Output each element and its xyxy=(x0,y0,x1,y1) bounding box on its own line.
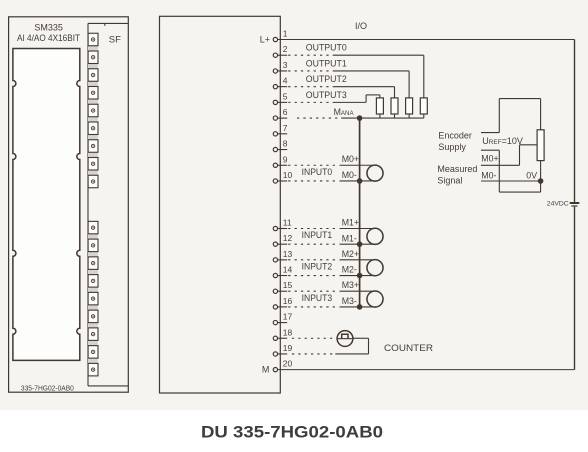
svg-text:INPUT3: INPUT3 xyxy=(302,293,333,303)
svg-text:12: 12 xyxy=(283,233,293,243)
svg-text:6: 6 xyxy=(283,107,288,117)
svg-text:13: 13 xyxy=(283,249,293,259)
svg-text:5: 5 xyxy=(283,91,288,101)
svg-text:M2+: M2+ xyxy=(342,249,359,259)
svg-text:16: 16 xyxy=(283,296,293,306)
svg-text:L+: L+ xyxy=(260,34,270,44)
svg-text:10: 10 xyxy=(283,170,293,180)
svg-text:24VDC: 24VDC xyxy=(547,201,569,208)
svg-text:M3-: M3- xyxy=(342,296,357,306)
svg-text:19: 19 xyxy=(283,343,293,353)
svg-text:OUTPUT1: OUTPUT1 xyxy=(306,58,347,68)
svg-text:M0+: M0+ xyxy=(342,154,359,164)
svg-text:M0-: M0- xyxy=(481,170,496,180)
svg-text:OUTPUT3: OUTPUT3 xyxy=(306,90,347,100)
svg-text:M1+: M1+ xyxy=(342,217,359,227)
svg-text:M: M xyxy=(262,364,270,374)
svg-text:M0-: M0- xyxy=(342,170,357,180)
svg-text:INPUT1: INPUT1 xyxy=(302,230,333,240)
svg-text:2: 2 xyxy=(283,44,288,54)
svg-text:3: 3 xyxy=(283,60,288,70)
svg-text:INPUT2: INPUT2 xyxy=(302,262,333,272)
svg-text:335-7HG02-0AB0: 335-7HG02-0AB0 xyxy=(21,385,74,392)
svg-text:11: 11 xyxy=(283,218,292,228)
svg-text:M1-: M1- xyxy=(342,233,357,243)
svg-text:7: 7 xyxy=(283,123,288,133)
svg-text:M3+: M3+ xyxy=(342,280,359,290)
svg-text:9: 9 xyxy=(283,154,288,164)
svg-text:M0+: M0+ xyxy=(481,154,498,164)
svg-text:1: 1 xyxy=(283,29,288,39)
svg-text:18: 18 xyxy=(283,327,293,337)
svg-text:17: 17 xyxy=(283,312,293,322)
svg-text:Signal: Signal xyxy=(437,176,462,186)
svg-text:DU 335-7HG02-0AB0: DU 335-7HG02-0AB0 xyxy=(201,424,383,442)
svg-text:AI 4/AO 4X16BIT: AI 4/AO 4X16BIT xyxy=(17,33,80,43)
svg-text:0V: 0V xyxy=(526,170,537,180)
svg-text:M2-: M2- xyxy=(342,265,357,275)
svg-text:SM335: SM335 xyxy=(34,23,63,33)
svg-text:OUTPUT0: OUTPUT0 xyxy=(306,43,347,53)
svg-text:INPUT0: INPUT0 xyxy=(302,167,333,177)
svg-text:Measured: Measured xyxy=(437,164,477,174)
svg-text:I/O: I/O xyxy=(355,21,367,31)
svg-text:8: 8 xyxy=(283,139,288,149)
svg-text:4: 4 xyxy=(283,76,288,86)
svg-text:OUTPUT2: OUTPUT2 xyxy=(306,74,347,84)
svg-text:Supply: Supply xyxy=(438,142,466,152)
svg-text:UREF=10V: UREF=10V xyxy=(482,136,523,146)
svg-text:14: 14 xyxy=(283,265,293,275)
svg-text:Encoder: Encoder xyxy=(438,131,472,141)
svg-text:COUNTER: COUNTER xyxy=(384,343,433,353)
svg-text:15: 15 xyxy=(283,280,293,290)
svg-text:SF: SF xyxy=(109,35,121,46)
svg-text:20: 20 xyxy=(283,359,293,369)
